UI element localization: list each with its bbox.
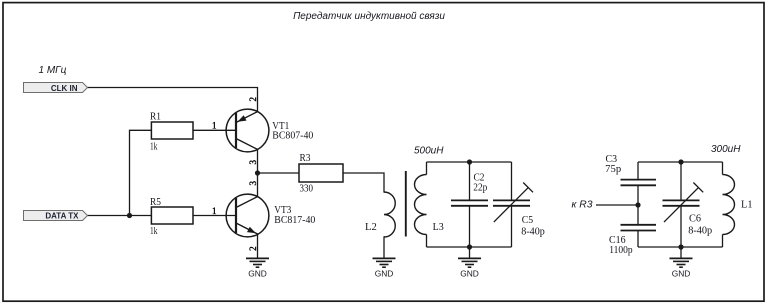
svg-text:1 МГц: 1 МГц (39, 65, 67, 76)
svg-text:330: 330 (300, 184, 314, 195)
wire right tank top (638, 161, 723, 163)
svg-text:8-40p: 8-40p (688, 225, 712, 236)
node rail junction (127, 213, 132, 218)
capacitor C6 (trimmer) (663, 162, 713, 247)
transformer core (405, 171, 407, 237)
svg-text:1k: 1k (150, 141, 158, 152)
resistor R1 (150, 111, 193, 152)
svg-text:Передатчик индуктивной связи: Передатчик индуктивной связи (293, 11, 445, 22)
wire VT1 collector to node (257, 149, 259, 173)
svg-text:C5: C5 (522, 215, 533, 226)
inductor L2 (365, 192, 395, 237)
transistor VT3 (212, 181, 315, 251)
wire VT3 emitter to ground (257, 234, 259, 258)
svg-text:к R3: к R3 (572, 199, 593, 210)
ground VT3 (246, 258, 269, 278)
resistor R5 (150, 197, 193, 237)
wire R3 to L2 (343, 173, 384, 192)
capacitor C5 (trimmer) (493, 162, 545, 247)
node tank top junction (467, 159, 472, 164)
wire rail DATA to R1 (130, 130, 152, 215)
ground right tank (670, 247, 693, 278)
wire node to R3 (258, 172, 300, 174)
transistor VT1 (212, 97, 313, 165)
node right tank bottom junction (678, 244, 683, 249)
svg-text:22p: 22p (473, 182, 487, 193)
svg-text:2: 2 (248, 97, 258, 102)
svg-text:GND: GND (248, 268, 267, 278)
node к R3 junction (635, 202, 640, 207)
svg-text:CLK IN: CLK IN (51, 84, 78, 93)
svg-text:3: 3 (248, 160, 258, 165)
inductor L1 (723, 162, 753, 247)
wire L2 to ground (383, 237, 385, 258)
svg-text:GND: GND (460, 268, 479, 278)
ground tank (458, 247, 481, 278)
svg-text:8-40p: 8-40p (521, 226, 545, 237)
svg-text:3: 3 (248, 181, 258, 186)
port DATA TX (24, 211, 88, 221)
wire right tank bottom (638, 246, 723, 248)
svg-text:1100p: 1100p (609, 245, 632, 256)
svg-text:R5: R5 (150, 197, 161, 208)
svg-text:2: 2 (248, 246, 258, 251)
svg-text:R1: R1 (150, 111, 161, 122)
capacitor C2 (451, 162, 488, 247)
wire tank top (427, 161, 512, 163)
wire DATA TX to R5 (87, 215, 151, 217)
svg-text:L1: L1 (741, 200, 753, 211)
svg-text:300uH: 300uH (711, 144, 741, 155)
svg-text:C6: C6 (689, 213, 701, 224)
capacitor C3 (605, 154, 656, 225)
svg-text:BC807-40: BC807-40 (272, 131, 313, 142)
node collector junction (255, 170, 260, 175)
wire tank bottom (427, 246, 512, 248)
svg-text:1k: 1k (150, 226, 158, 237)
port CLK IN (24, 83, 88, 93)
svg-text:L2: L2 (365, 222, 377, 233)
svg-text:R3: R3 (300, 153, 311, 164)
wire R5 to VT3 base (193, 215, 236, 217)
svg-text:1: 1 (212, 121, 217, 131)
inductor L3 (415, 162, 444, 247)
svg-text:500uH: 500uH (414, 146, 444, 157)
node right tank top junction (678, 159, 683, 164)
capacitor C16 (609, 225, 656, 256)
wire CLK IN to VT1 emitter (87, 88, 257, 112)
svg-text:L3: L3 (433, 222, 444, 233)
svg-text:DATA TX: DATA TX (45, 212, 79, 221)
svg-text:GND: GND (375, 268, 394, 278)
ground L2 (373, 258, 396, 278)
wire R1 to VT1 base (193, 129, 236, 131)
svg-text:BC817-40: BC817-40 (274, 215, 315, 226)
wire к R3 to C3/C16 (596, 204, 638, 206)
node tank bottom junction (467, 244, 472, 249)
svg-text:GND: GND (672, 268, 691, 278)
wire VT3 collector to node (257, 173, 259, 197)
resistor R3 (299, 153, 343, 195)
svg-text:1: 1 (212, 206, 217, 216)
svg-text:75p: 75p (605, 164, 621, 175)
